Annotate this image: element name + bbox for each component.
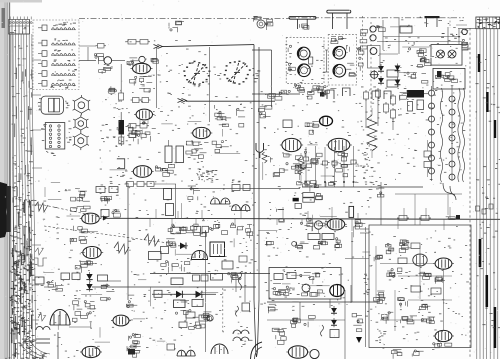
coil bracket x120 [117, 159, 125, 169]
AFC line [152, 293, 216, 295]
parts under vert stage [161, 264, 166, 267]
audio tube V15 [327, 219, 344, 230]
heater hook ends [443, 183, 456, 200]
dark diode right [356, 337, 362, 343]
IF coil L1 [165, 146, 172, 163]
osc tube circle 3 [370, 48, 377, 55]
small dark tube V7 [320, 116, 333, 126]
wire x352 vertical [351, 232, 353, 302]
parts above box [423, 56, 425, 61]
audio box interior wiring [380, 263, 435, 265]
audio out tube V22 [435, 258, 452, 269]
parts below coil bracket [122, 175, 123, 178]
vertical label text column [356, 165, 357, 168]
tuner right parts [358, 47, 360, 49]
rotary switch wafer 2 hub [234, 72, 240, 74]
small triode circle [314, 221, 322, 229]
hor AFC boxes top [171, 278, 183, 285]
heater wavy leads [440, 88, 442, 182]
AFC box left [154, 290, 162, 297]
oscillator box border [271, 50, 273, 107]
resistor under capacitor [119, 137, 124, 144]
phase detector parts [72, 239, 74, 241]
boxes under coil [408, 102, 413, 112]
wafer area label text [217, 74, 220, 77]
height control cluster [186, 230, 193, 233]
AGC dashes [370, 22, 372, 120]
T-bar stem pin marks [299, 24, 301, 28]
selector row 6 contact ticks [60, 79, 62, 82]
sound tube V9 [328, 138, 350, 151]
indicator lamp circle [462, 29, 468, 35]
flyback tube V20 [330, 285, 344, 297]
vert output tube V14 double [192, 251, 208, 260]
parts left col [377, 26, 382, 28]
component chain x118 resistor [119, 93, 124, 100]
hor output line [267, 301, 380, 303]
vert waveform glyph B [144, 234, 159, 246]
socket connector X2 with pin dots [45, 123, 65, 149]
heater chain rail left [431, 86, 433, 181]
tuner-IF separator line [252, 93, 300, 95]
right terminal table [476, 17, 500, 29]
flyback dashed feedback line [44, 205, 107, 219]
stub wires into box [360, 228, 369, 230]
parts left of coil [400, 96, 407, 100]
cable bundle inner lines [12, 34, 14, 359]
junction parts above oscillator [104, 68, 111, 71]
decoupling chain row [305, 147, 307, 187]
zigzag resistor small [262, 152, 267, 163]
component value annotations [378, 111, 380, 114]
selector row 5 contact ticks [74, 68, 77, 71]
heater chain circles right [449, 96, 455, 102]
boxes left of V16 [167, 344, 175, 350]
box right column [239, 256, 247, 262]
V4 pin wires [139, 120, 141, 126]
width coil lines [299, 302, 301, 320]
V6 grid parts [160, 168, 166, 170]
boost diode D4 [86, 274, 92, 280]
hex socket B3 [75, 134, 87, 148]
selector wafer row 3 coil bank [52, 53, 55, 55]
discriminator box upper [431, 45, 462, 66]
parts right of V15 [356, 223, 362, 227]
bus label thick segment 6 [494, 120, 496, 138]
flyback inner boxes [274, 274, 283, 280]
section wire x205 [205, 230, 207, 352]
rotary switch wafer 1 hub [194, 73, 200, 75]
hor drive tube V16 double [177, 350, 186, 356]
ratio det row boxes [171, 227, 181, 234]
table feed line [458, 28, 476, 30]
vert osc coil L3 [164, 189, 172, 200]
booster parts under box [268, 306, 275, 308]
video amp mesh wires [383, 36, 460, 38]
antenna input socket [257, 20, 265, 28]
hor AFC diode D2 [176, 291, 182, 298]
divider wire x381 [380, 182, 382, 225]
dropper zigzag resistor [367, 115, 377, 151]
wire x345 [344, 290, 346, 359]
diode D9 [395, 80, 401, 85]
dashed vertical isolation [469, 28, 471, 359]
small transistor sym [115, 209, 117, 211]
hor osc extra boxes [186, 312, 195, 318]
tuner dashed border right [362, 16, 364, 80]
heater chain circles left [429, 90, 435, 96]
flyback inner parts [273, 288, 275, 290]
osc tube circles column [370, 26, 376, 32]
sync input parts [78, 190, 87, 192]
parts below tubes [433, 343, 435, 345]
parts left mid [126, 304, 133, 307]
margin vertical text runs [19, 293, 22, 304]
rotary switch wafer 2 arms [228, 64, 246, 82]
right chain parts [462, 42, 467, 45]
tuner box2 right parts [349, 72, 354, 75]
cable labels upper [31, 210, 32, 213]
right bus wires [476, 29, 478, 359]
bus label thick segment 2 [486, 275, 489, 307]
section wire y287 [92, 286, 256, 288]
resistor R11 [128, 40, 136, 45]
boxes at bus left [96, 187, 105, 193]
channel selector dashed enclosure [33, 20, 79, 90]
vert amp tubes V13 double [232, 205, 241, 211]
tuner unit 2 dashed box [328, 35, 356, 85]
tuner unit 1 inner parts [288, 63, 290, 65]
bus-top boxes [399, 216, 407, 221]
video amp chain parts [263, 116, 271, 118]
IF right coupling cluster [215, 113, 221, 116]
oscillator lower parts [143, 75, 151, 77]
video det parts top [269, 94, 276, 97]
bottom-left text row [14, 352, 16, 355]
selector wafer row 2 switch box [42, 40, 47, 46]
IF coax line lower [186, 100, 275, 102]
dark cluster bottom-left [133, 353, 137, 357]
top-left corner smudge [2, 8, 6, 28]
bus drop wires [149, 219, 151, 227]
oscillator parts left [128, 63, 130, 65]
audio box parts r1 [386, 250, 391, 254]
antenna matching parts [252, 18, 254, 22]
switch contact S1 [104, 57, 112, 65]
box R53 [295, 203, 301, 208]
parts left of V15 [300, 222, 302, 224]
hor aux line [267, 319, 345, 321]
box chain right [424, 151, 431, 157]
selector wafer row 2 coil bank [52, 43, 55, 45]
section divider vertical pair [253, 45, 255, 300]
discriminator parts top [310, 181, 316, 184]
IF feed wire 1 [156, 47, 158, 108]
spine ink blob [0, 182, 8, 238]
left resistor chains [364, 92, 369, 99]
IF tube V5 [193, 127, 211, 138]
audio input wire [345, 258, 369, 260]
vertical label text 2 [383, 330, 386, 333]
diode D8 [395, 66, 401, 71]
line stage parts mid [73, 305, 75, 310]
resistor box R61 [400, 26, 412, 33]
electrolytic capacitor C dark [119, 120, 125, 135]
video amp box R31 [283, 120, 292, 128]
vert amp tubes V12 double [211, 198, 220, 204]
flyback enclosure box [269, 268, 341, 300]
page spine line [9, 0, 11, 359]
wires M area [44, 286, 58, 288]
boost diode D5 [86, 284, 92, 290]
selector row 1 contact ticks [62, 24, 65, 27]
tube V1a top view [297, 47, 310, 60]
video stage lower parts row [273, 173, 279, 177]
bus junction parts [277, 209, 283, 211]
heater chain bottom text [370, 181, 372, 184]
parts left of CRT [278, 330, 283, 333]
bus label thick segment 4 [478, 54, 480, 72]
margin stub wires [32, 59, 41, 61]
bus label thick segment 5 [486, 92, 488, 112]
damper parts [55, 282, 57, 286]
cable labels lower dense [16, 295, 18, 298]
hor out coil arcs [233, 330, 249, 334]
selector wafer row 5 coil bank [52, 73, 55, 75]
wire x58 vertical [57, 332, 59, 359]
tuner shield can bar 1 [289, 16, 316, 19]
focus parts [103, 285, 105, 287]
hor osc boxes [174, 300, 186, 308]
chain link wires [365, 99, 367, 128]
bus text labels [497, 106, 500, 109]
video det dark dot [320, 92, 325, 97]
sync clipper tube V10 [82, 213, 100, 224]
resistor R near selector [98, 44, 105, 49]
AGC dashed line 2 [44, 226, 172, 244]
hor drive tube V17 [211, 344, 228, 354]
IF tube V6 [133, 166, 151, 178]
vert osc coil L4 [166, 204, 174, 216]
diode D7 [378, 78, 384, 83]
resistor pair on top wire [127, 182, 134, 187]
selector row 4 contact ticks [54, 60, 56, 63]
wire x128 vertical [127, 183, 129, 300]
CRT circle part [310, 349, 319, 358]
cable bundle wires [10, 34, 11, 359]
vert output transformer box [210, 242, 225, 257]
tuner bottom bracket contacts [327, 90, 334, 99]
selector row 3 contact ticks [57, 50, 60, 53]
squiggle O [321, 325, 324, 336]
tuner below-box pin parts [318, 87, 320, 91]
parts below audio box [394, 351, 402, 353]
boxes under V15 [308, 234, 320, 240]
damper diode chain [331, 308, 337, 313]
audio enclosure inner border [365, 227, 367, 347]
dashed vertical x223 [222, 288, 224, 332]
selector wafer row 4 coil bank [52, 63, 55, 65]
IF stage value table [206, 170, 209, 173]
divider converge to CRT point [254, 300, 257, 357]
volume box vertical [349, 206, 354, 217]
ground circle sym [292, 242, 297, 247]
vert osc box R42 [161, 247, 169, 254]
video box dash stub [449, 17, 451, 28]
selector row 1 arrows [64, 23, 67, 26]
selector wafer row 6 coil bank [52, 83, 55, 85]
scan speckle noise [21, 223, 24, 226]
cable junction ticks [12, 115, 16, 117]
left stub parts [360, 40, 367, 43]
selector wafer row 5 switch box [42, 71, 47, 77]
boxes above V13 [232, 185, 240, 191]
vert drive parts [168, 240, 170, 245]
tuner shield can bar 2 [327, 10, 351, 13]
audio box parts r4 [407, 301, 409, 307]
transistor T1 sym [437, 50, 445, 58]
sync aux box [101, 210, 109, 217]
cable labels mid band [18, 211, 19, 214]
yoke waveform [38, 313, 46, 321]
IF decoupling boxes [129, 124, 136, 129]
selector row 2 contact ticks [62, 39, 65, 42]
selector wafer row 3 switch box [42, 51, 47, 57]
flyback small tube [302, 284, 310, 292]
audio coupling parts [298, 246, 303, 249]
terminal table lower symbols [12, 31, 15, 34]
parts near V7 [312, 121, 318, 123]
squiggle 2 [236, 306, 239, 316]
hex socket B1 [75, 97, 89, 113]
clamp tube V24 [113, 315, 129, 326]
oscillator trimmer S2 [139, 56, 145, 62]
audio box parts r3 [391, 269, 393, 271]
selector wafer row 4 switch box [42, 61, 47, 67]
sync arrow [103, 216, 108, 221]
bus label thick segment 1 [479, 239, 482, 267]
wires down right N [235, 272, 237, 292]
vertical label text 1 [367, 288, 370, 291]
decoupling bus wire [302, 186, 423, 188]
boost boxes row [35, 277, 44, 284]
rotary switch wafer 1 contact ring [208, 75, 210, 76]
terminal strip table [9, 20, 30, 35]
IF coil L2 [176, 146, 184, 163]
IF coax line upper [162, 45, 254, 47]
thick junction mark [293, 198, 299, 202]
EHT tube V19 [82, 346, 100, 357]
shielded coil dark bar [407, 90, 424, 98]
lower box parts [452, 78, 454, 81]
vert diode D1 [180, 242, 186, 249]
wire x351 [350, 285, 352, 303]
selector wafer row 1 coil bank [52, 28, 55, 30]
tube V2a top view [333, 46, 346, 59]
table bottom rail [9, 33, 30, 35]
IF link arrows upper [154, 45, 159, 49]
rotary switch wafer 1 arms [188, 65, 206, 83]
tuner unit 2 inner parts [331, 36, 336, 38]
sync waveform glyph 2 [34, 258, 47, 266]
interconnect wires [188, 121, 202, 123]
transistor T2 sym [448, 50, 456, 58]
corner parts bottom-left of G [266, 241, 271, 245]
cable labels extra dense bottom [22, 278, 25, 281]
tube V1b top view [298, 64, 311, 77]
vert osc box R41 [149, 252, 162, 260]
IF link arrows lower [178, 99, 183, 103]
selector wafer row 1 switch box [42, 25, 47, 31]
page left edge shading [0, 0, 8, 359]
IF feed wire 2 [209, 47, 211, 122]
mid mesh parts [418, 53, 423, 57]
main distribution bus wire [107, 218, 500, 219]
box pair R51 R52 [303, 193, 315, 198]
sync waveform glyph 1 [35, 202, 48, 212]
cable bundle bottom fan-out [24, 340, 47, 357]
wire y188 horizontal [150, 187, 300, 189]
bus inline connector boxes [476, 206, 480, 211]
wires between tuner units [325, 49, 328, 51]
IF amp resistor R21 [133, 98, 140, 103]
IF right sparse parts [239, 110, 244, 112]
socket labels [66, 137, 67, 140]
wire y184 [156, 183, 176, 185]
oscillator sub-box [368, 46, 381, 69]
CRT tube V21 [288, 346, 307, 358]
antenna feeder cluster [176, 22, 182, 25]
audio output enclosure [369, 225, 471, 348]
sync tube V11 [83, 247, 101, 259]
socket plug top view X1 [41, 96, 63, 114]
main chassis dash-dot boundary [79, 17, 290, 19]
resistor R12 [140, 40, 148, 45]
boxes R62 R63 [387, 70, 398, 77]
IF tube V4 lower parts [135, 131, 140, 134]
audio box parts r2 [375, 256, 379, 259]
selector bottom label row [50, 86, 52, 89]
second audio bus wire [150, 273, 270, 275]
yoke coil symbol [36, 327, 50, 330]
wires from selector to AF switch [79, 60, 96, 62]
loudspeaker plug fork [256, 143, 264, 158]
IF tube V4 [136, 109, 152, 120]
wire x121 vertical [120, 64, 122, 93]
crosshair symbol [371, 71, 378, 78]
CRT envelope arc [251, 342, 263, 359]
hor AFC diode D3 [196, 291, 202, 298]
video out tube V8 [282, 138, 301, 151]
IF amp resistor R22 [142, 98, 149, 103]
IF stage parts around V5 [221, 146, 229, 148]
capacitor cluster beside selector [98, 58, 100, 65]
discriminator box lower [433, 68, 465, 89]
line out tube V18 arc [50, 310, 70, 326]
shield top bar [425, 16, 440, 18]
zigzag resistor large [298, 157, 305, 175]
dark contact row [456, 33, 457, 36]
vert waveform glyph A [114, 242, 129, 254]
tube V2b top view [333, 64, 346, 77]
audio out tube V23 [435, 330, 452, 341]
A-label vertical text [253, 74, 254, 77]
tuner unit 1 dashed box [286, 37, 324, 83]
rotary switch wafer 2 contact ring [247, 74, 249, 75]
diode D6 [378, 66, 384, 71]
wire x175 [175, 184, 177, 219]
oscillator tube V3 [133, 63, 151, 73]
